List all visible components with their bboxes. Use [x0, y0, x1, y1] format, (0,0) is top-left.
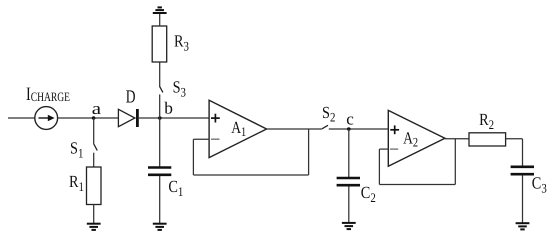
wire C3 to ground [522, 175, 524, 223]
wire A2 minus input [379, 148, 388, 150]
diode D [118, 87, 137, 127]
wire A1 feedback bottom rail [193, 174, 308, 176]
wire R1 to ground [93, 205, 95, 224]
wire R3 to top ground [159, 13, 161, 26]
switch S1 [70, 139, 97, 161]
wire c down to C2 [348, 129, 350, 177]
wire R2 to corner [506, 138, 523, 140]
wire A2 output to R2 [445, 138, 469, 140]
wire b up to switch S3 [159, 94, 161, 118]
capacitor C1 [148, 168, 183, 200]
op-amp A2 [388, 110, 445, 166]
wire S2 to A2 plus input [329, 128, 389, 130]
wire A1 feedback right rail [308, 129, 310, 175]
wire A1 output to S2 [267, 128, 322, 130]
wire corner down to C3 [522, 139, 524, 166]
capacitor C2 [337, 178, 376, 205]
resistor R2 [469, 110, 506, 146]
wire input left [8, 117, 35, 119]
wire diode to A1 plus input [139, 117, 209, 119]
wire C1 to ground [159, 176, 161, 224]
wire b down to C1 [159, 118, 161, 167]
svg-text:b: b [164, 99, 173, 118]
wire S3 to R3 [159, 62, 161, 86]
wire A1 minus input [193, 138, 209, 140]
wire A2 feedback bottom rail [379, 184, 455, 186]
capacitor C3 [511, 167, 547, 196]
node a [92, 99, 102, 120]
resistor R1 [69, 167, 101, 205]
ground below C2 [342, 223, 356, 229]
wire a to diode [58, 117, 119, 119]
svg-text:D: D [126, 87, 136, 107]
resistor R3 [152, 26, 189, 62]
node c [346, 109, 354, 131]
wire C2 to ground [348, 186, 350, 222]
switch S3 [160, 77, 187, 99]
ground below R1 [87, 224, 101, 230]
node b [158, 99, 173, 120]
svg-text:a: a [92, 99, 102, 118]
wire S1 to R1 [93, 153, 95, 167]
wire A1 feedback left rail [192, 139, 194, 175]
wire a down to switch S1 [93, 118, 95, 144]
op-amp A1 [209, 100, 267, 157]
wire A2 feedback right rail [454, 138, 456, 184]
ground top (inverted) [153, 7, 167, 13]
ground below C1 [153, 224, 167, 230]
svg-text:c: c [346, 109, 354, 128]
current source I_CHARGE [35, 107, 58, 130]
wire A2 feedback left rail [378, 149, 380, 184]
switch S2 [322, 103, 335, 129]
ground below C3 [516, 223, 530, 229]
